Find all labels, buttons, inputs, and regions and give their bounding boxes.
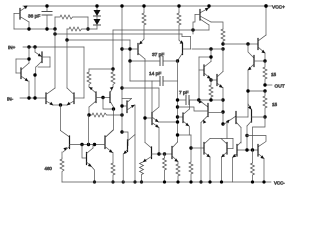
wire y=88 branch [122,88,159,112]
wire vertical x=130 [129,40,131,61]
junction dot [264,4,267,7]
junction dot [245,148,248,151]
wire vertical x=122 from rail [121,6,123,132]
junction dot [163,152,166,155]
junction dot [128,59,131,62]
transistor Q29 (bar x=227, mirrored) [221,139,233,183]
junction dot [87,113,90,116]
wire IN- line [20,97,46,99]
junction dot [176,133,179,136]
resistor R1 (upper loop) [55,15,88,29]
junction dot [86,27,89,30]
resistor R12 (15 ohm upper) [263,61,267,85]
svg-text:OUT: OUT [275,84,285,90]
junction dot [143,116,146,119]
junction dot [120,86,123,89]
resistor R17 (x=191 to rail) [178,135,193,182]
junction dot [208,180,211,183]
resistor R11 (x=211 below Q17) [209,80,213,100]
junction dot [33,73,36,76]
junction dot [176,120,179,123]
transistor Q11 (PNP, bar x=182.5) [178,34,191,60]
svg-text:7 pF: 7 pF [179,90,189,96]
wire output node y=91 [248,90,265,92]
junction dot [251,180,254,183]
transistor Q19 (second stage, bar x=208) [178,100,224,182]
junction dot [221,98,224,101]
junction dot [262,180,265,183]
junction dot [176,115,179,118]
transistor Q20 (x=236 PNP mirrored) [224,112,249,144]
wire mirror base down [103,98,114,110]
wire bias line y=30 [113,29,209,31]
wire x=223 vertical (2nd stage output bus) [222,88,224,125]
transistor Q3 (input clamp, diode-connected NPN) [16,47,29,98]
diode D1 [94,6,101,16]
svg-text:15: 15 [272,102,278,107]
junction dot [199,180,202,183]
junction dot [189,146,192,149]
wire bias line y=34 [55,33,182,35]
transistor Q25 (bottom right pair, right, mirrored) [258,145,264,183]
wire OUT stub [265,84,272,86]
capacitor C4 7 pF [178,96,224,105]
junction dot [163,180,166,183]
transistor Q30 (bar x=183) [178,100,190,135]
transistor Q12a (second stage input, dual emitter) [145,81,178,154]
resistor R4 (mirror left emitter) [87,69,91,87]
svg-text:14 pF: 14 pF [149,71,161,77]
transistor Q5 (input pair left) [46,88,67,106]
transistor Q17 (diode connected, bar x=204) [199,49,211,100]
resistor R8 (x=179 from rail) [177,6,181,40]
junction dot [177,4,180,7]
transistor Q9 (mirror right) [110,87,114,107]
junction dot [263,59,266,62]
transistor Q6 (input pair right) [67,40,85,106]
junction dot [53,32,56,35]
junction dot [189,180,192,183]
wire Q23 base chain down [253,117,266,150]
wire y=49 line [192,48,223,50]
junction dot (VCC+ corner) [264,4,267,7]
junction dot [263,83,266,86]
junction dot (mirror base node) [101,96,104,99]
junction dot [111,180,114,183]
junction dot [209,98,212,101]
junction dot [176,105,179,108]
junction dot [65,38,68,41]
junction dot [133,180,136,183]
capacitor C2 37 pF [130,57,178,66]
junction dot [245,134,248,137]
wire base line y=148 [191,147,204,149]
transistor Q4 (input clamp, diode-connected PNP) [35,47,50,98]
junction dot [263,115,266,118]
junction dot [176,98,179,101]
junction dot [197,98,200,101]
transistor Q8 (mirror left) [89,87,110,115]
wire Q28/Q29 collector node up [226,122,228,139]
junction dot [120,4,123,7]
wire x=88.5 up to R6 [88,115,90,145]
resistor R18 (x=141.5 to rail) [140,163,144,183]
svg-text:36 pF: 36 pF [28,14,40,20]
resistor R3 460 (tail emitter) [60,152,64,182]
transistor Q27 (bar x=172) [159,142,178,162]
junction dot [221,122,224,125]
transistor Q18 (bar x=217) [211,49,223,88]
svg-text:15: 15 [271,72,277,77]
wire vertical x=113 to mirror [112,30,114,69]
transistor Q21 (output top NPN) [248,35,266,61]
junction dot [176,59,179,62]
junction dot (tail node) [59,103,62,106]
junction dot [95,4,98,7]
junction dot [33,45,36,48]
wire down to Q13 collector [105,109,114,138]
junction dot [93,180,96,183]
junction dot [27,27,30,30]
wire bias line y=40 [67,39,130,41]
junction dot [80,143,83,146]
junction dot [122,180,125,183]
junction dot [251,148,254,151]
junction dot [157,152,160,155]
junction dot [112,107,115,110]
transistor Q14 (bottom left) [82,145,95,183]
junction dot [120,130,123,133]
junction dot [45,27,48,30]
resistor R13 (15 ohm lower) [263,91,267,117]
transistor Q24 (bottom right pair, left) [232,142,241,182]
transistor Q13 (x=105 NPN) [105,130,113,153]
junction dot [87,143,90,146]
resistor R2 (lower) [67,27,97,40]
junction dot [209,55,212,58]
junction dot [207,4,210,7]
resistor R9 (x=113 to rail) [111,153,115,183]
transistor Q28 (bar x=204) [204,139,233,183]
diode D2 [94,16,101,29]
svg-text:IN-: IN- [7,97,14,102]
junction dot [33,96,36,99]
junction dot [246,89,249,92]
junction dot [221,110,224,113]
svg-text:37 pF: 37 pF [152,52,164,58]
junction dot [120,104,123,107]
wire vertical x=55 (R node to Q5 collector) [54,29,56,88]
wire VCC+ rail [23,5,266,7]
junction dot [27,57,30,60]
junction dot [220,180,223,183]
transistor Q16 (top PNP near rail) [193,6,223,34]
resistor R10 (x=223) [221,29,225,44]
resistor R15 (x=164 to rail) [163,154,167,182]
wire x=177 vertical (Q11 collector bus) [177,61,179,142]
junction dot [191,28,194,31]
svg-text:VCC+: VCC+ [272,5,285,11]
resistor R14 (bottom right) [251,150,255,182]
transistor Q15b (bar x=127.5 lower) [122,132,135,182]
junction dot [209,78,212,81]
junction dot [140,180,143,183]
capacitor C1 36 pF [42,6,52,29]
transistor Q10 (PNP, bar x=138) [122,39,145,143]
junction dot [27,96,30,99]
transistor Q1 (top-left, base to compensation net) [14,6,29,30]
junction dot [120,47,123,50]
transistor Q7 (tail current source) [61,131,70,153]
junction dot [111,67,114,70]
svg-text:460: 460 [45,166,53,171]
junction dot [27,45,30,48]
junction dot [45,4,48,7]
capacitor C3 14 pF [130,61,178,86]
wire IN+ down to Q6 base [83,47,85,98]
resistor R6 (horizontal, y=115) [89,113,122,117]
transistor Q26 (bottom mid, bar x=151.5 mirrored) [142,143,159,163]
junction dot [221,47,224,50]
wire VCC- rail [62,181,271,183]
wire y=135.5 to Q25 collector [247,136,266,147]
current mirror top wire [89,68,113,70]
wire Q23 collector down to base line [246,126,248,150]
wire y=144.5 line [70,144,106,146]
junction dot [209,47,212,50]
node VCC+ rail to output collector [265,6,267,35]
junction dot [263,89,266,92]
wire tail down [60,105,62,131]
junction dot [221,42,224,45]
resistor R16 (x=178 to rail) [176,162,180,182]
transistor Q22 (output PNP driver, mirrored) [248,44,265,117]
wire base line y=150 [238,149,258,151]
svg-text:IN+: IN+ [8,45,16,50]
junction dot [176,180,179,183]
junction dot [120,113,123,116]
junction dot [142,4,145,7]
transistor Q15 (diode connected, bar x=127) [122,99,135,183]
junction dot [128,47,131,50]
transistor Q23 (output bottom NPN) [247,104,265,126]
junction dot [53,27,56,30]
wire y=44 to output stage [223,43,248,45]
junction dot [93,143,96,146]
svg-text:VCC-: VCC- [274,181,285,186]
resistor R7 (x=144 from rail) [142,6,146,39]
wire node A horizontal (y=29) [14,28,55,30]
resistor R5 (mirror right emitter) [111,69,115,87]
wire IN+ line [23,46,84,48]
junction dot [246,42,249,45]
